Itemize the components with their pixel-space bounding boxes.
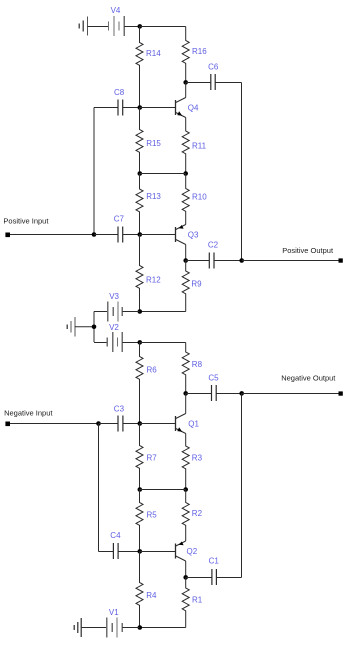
svg-text:Negative Output: Negative Output [281,374,336,383]
resistor R5 [136,490,143,552]
terminal Positive Input [5,233,10,238]
resistor R12 [136,235,143,312]
svg-text:V3: V3 [109,292,119,301]
junction Q1 base node [138,421,143,426]
svg-text:V2: V2 [109,323,119,332]
resistor R14 [136,27,143,108]
junction V3 / R12 / R9 [138,309,143,314]
junction mid row left [138,171,143,176]
resistor R8 [182,343,189,394]
svg-text:R13: R13 [146,192,161,201]
wire Q4 base [140,107,176,109]
junction C5 / bus / output [239,391,244,396]
svg-text:Q1: Q1 [188,420,199,429]
wire Q2 base [140,551,176,553]
svg-text:R9: R9 [191,280,202,289]
wire right bus top half [241,83,243,261]
wire top rail to R16 [140,26,186,28]
resistor R11 [182,118,189,174]
ground (middle, V3/V2) [67,317,75,336]
junction mid row 2 left [138,487,143,492]
junction C2 / bus / output [239,258,244,263]
svg-text:R11: R11 [192,142,207,151]
junction at top of R14 [138,24,143,29]
wire ground to V4 [87,26,108,28]
junction Q2 base node [138,549,143,554]
capacitor C8 [94,100,140,116]
svg-text:R4: R4 [146,591,157,600]
resistor R15 [136,108,143,174]
svg-text:Q4: Q4 [188,103,199,112]
svg-text:R7: R7 [147,453,158,462]
svg-text:R2: R2 [192,509,203,518]
resistor R1 [182,578,189,628]
svg-text:C8: C8 [114,88,125,97]
wire mid row 2 [140,489,186,491]
capacitor C6 [186,74,242,90]
svg-text:C5: C5 [208,373,219,382]
wire to positive output [242,260,340,262]
svg-text:V1: V1 [109,608,119,617]
wire input to left rail bottom [10,423,99,425]
junction V2 / bottom half rail [138,340,143,345]
capacitor C7 [94,227,140,243]
wire right bus bottom half [241,394,243,578]
svg-text:R14: R14 [146,49,161,58]
ground (bottom, for V1) [74,618,81,637]
wire R1 bottom to V1 node [140,627,186,629]
terminal Negative Output [339,391,343,395]
svg-text:Q3: Q3 [188,230,199,239]
svg-text:C6: C6 [208,62,219,71]
junction mid row 2 right [183,487,188,492]
junction V1 / R4 / R1 [138,625,143,630]
resistor R9 [182,261,189,312]
svg-text:R15: R15 [146,139,161,148]
junction Q2 collector / C1 / R1 [183,575,188,580]
svg-text:C3: C3 [114,404,125,413]
transistor Q1 [176,414,186,434]
resistor R10 [182,174,189,225]
wire Q1 collector lead [185,394,187,414]
capacitor C3 [99,416,140,432]
transistor Q4 [176,83,186,118]
svg-text:R3: R3 [192,453,203,462]
wire left rail top half [93,108,95,235]
svg-text:C1: C1 [209,557,220,566]
wire V3-V2 left rail [93,312,95,343]
svg-text:Positive Output: Positive Output [282,246,334,255]
svg-text:Negative Input: Negative Input [4,408,53,417]
junction Q3 collector / C2 / R9 [183,258,188,263]
capacitor C4 [99,543,140,559]
wire ground to V1 [81,627,107,629]
junction C6 / R16 / Q4 collector [183,80,188,85]
wire bottom half top rail [140,342,186,344]
svg-text:C7: C7 [114,215,125,224]
resistor R3 [182,434,189,490]
transistor Q2 [176,541,186,578]
wire to negative output [242,393,340,395]
resistor R4 [136,552,143,628]
svg-text:R5: R5 [147,510,158,519]
junction Q4 base node [138,105,143,110]
junction mid row right [183,171,188,176]
wire V4 to node [124,26,139,28]
svg-text:Positive Input: Positive Input [3,216,49,225]
capacitor C1 [186,569,242,585]
junction input / C3 / rail [96,421,101,426]
wire left rail bottom half [98,424,100,552]
capacitor C2 [186,253,242,269]
svg-text:R1: R1 [192,595,203,604]
ground (top, for V4) [79,16,87,35]
svg-text:Q2: Q2 [187,547,198,556]
svg-text:R6: R6 [147,365,158,374]
resistor R7 [136,424,143,490]
svg-text:V4: V4 [111,6,121,15]
battery V1 [107,618,140,638]
transistor Q3 [176,225,186,261]
resistor R16 [182,27,189,83]
svg-text:R8: R8 [192,360,203,369]
junction Q3 base node [138,232,143,237]
resistor R13 [136,174,143,235]
wire input to left rail [10,234,94,236]
resistor R6 [136,343,143,424]
svg-text:C4: C4 [110,531,121,540]
junction R8 / C5 / Q1 collector [183,391,188,396]
capacitor C5 [186,385,242,401]
wire middle ground [75,326,94,328]
svg-text:C2: C2 [208,241,219,250]
svg-text:R16: R16 [192,47,207,56]
battery V2 [94,332,140,352]
svg-text:R10: R10 [192,193,207,202]
junction middle ground [92,324,97,329]
wire Q1 base [140,423,176,425]
svg-text:R12: R12 [146,275,161,284]
junction input / C7 / rail [92,232,97,237]
wire mid row [140,173,186,175]
resistor R2 [182,490,189,542]
terminal Negative Input [5,422,10,427]
terminal Positive Output [339,258,343,262]
wire R9 bottom to V3 node [140,311,186,313]
battery V3 [94,302,140,322]
wire Q3 base [140,234,176,236]
battery V4 [108,16,124,36]
